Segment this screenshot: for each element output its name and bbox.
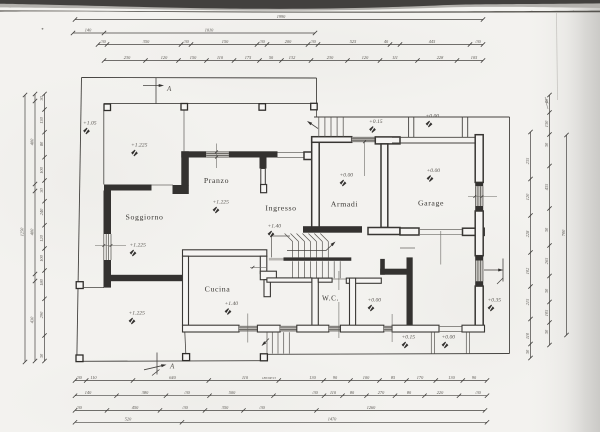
wall nub armadi left <box>304 152 312 160</box>
wall divider armadi-garage <box>381 144 388 228</box>
svg-text:/30: /30 <box>258 39 265 44</box>
level +0.00 armadi <box>339 173 353 187</box>
svg-text:435: 435 <box>544 183 549 190</box>
svg-text:180: 180 <box>39 278 44 285</box>
dimension chain right inner <box>525 130 533 360</box>
svg-text:120: 120 <box>39 234 44 241</box>
svg-text:265: 265 <box>544 257 549 264</box>
svg-text:/30: /30 <box>311 390 318 395</box>
svg-text:120: 120 <box>362 55 369 60</box>
svg-text:130: 130 <box>544 120 549 127</box>
pillar top 2 <box>181 104 188 111</box>
svg-text:105: 105 <box>544 309 549 316</box>
door lines garage <box>419 229 463 231</box>
staircase upper steps <box>272 234 329 258</box>
svg-text:Cucina: Cucina <box>205 285 231 294</box>
svg-text:525: 525 <box>350 39 357 44</box>
wall corridor armadi bottom <box>303 226 362 233</box>
svg-text:132: 132 <box>289 55 296 60</box>
dim line wc window <box>338 271 340 338</box>
dimension chain left total 1250 <box>19 93 27 364</box>
window cucina south 2 <box>280 326 297 331</box>
wall divider bottom flange <box>368 228 400 235</box>
svg-text:228: 228 <box>525 230 530 237</box>
dimension chain bottom row 1 <box>73 375 489 383</box>
svg-text:500: 500 <box>229 390 236 395</box>
wall bath nook bottom <box>380 269 411 275</box>
wall soggiorno left upper <box>104 191 112 235</box>
wall bath partition <box>380 259 385 275</box>
svg-text:130: 130 <box>309 375 316 380</box>
svg-text:400: 400 <box>29 138 34 145</box>
wall garage sill block 3 <box>475 256 483 261</box>
svg-text:+0.15: +0.15 <box>402 335 416 341</box>
svg-text:111: 111 <box>392 55 398 60</box>
level +0.35 right exit <box>487 298 501 312</box>
svg-text:230: 230 <box>124 55 131 60</box>
pillar bottom left <box>76 355 83 362</box>
column pranzo-ingresso thin part <box>261 169 266 185</box>
svg-text:180/9P/15: 180/9P/15 <box>262 376 276 380</box>
svg-text:/30: /30 <box>75 375 82 380</box>
dimension chain total 1990 <box>73 14 485 22</box>
pillar bottom middle 2 <box>260 354 267 361</box>
svg-text:140: 140 <box>85 390 92 395</box>
wall garage sill block 4 <box>475 281 483 286</box>
door line soggiorno-ingresso <box>152 184 174 186</box>
window soggiorno left <box>104 234 111 260</box>
wall garage bottom west <box>400 228 419 235</box>
svg-text:120: 120 <box>161 55 168 60</box>
svg-text:1260: 1260 <box>367 405 376 410</box>
wall pranzo top east <box>229 151 278 157</box>
level +1.225 lower terrace <box>128 311 145 325</box>
dim line soggiorno window <box>95 244 126 247</box>
svg-text:130: 130 <box>39 116 44 123</box>
svg-text:/30: /30 <box>181 405 188 410</box>
svg-text:445: 445 <box>429 39 436 44</box>
svg-text:Garage: Garage <box>418 199 444 208</box>
svg-text:1470: 1470 <box>328 417 337 422</box>
window bath south <box>384 326 392 331</box>
wall south row cucina <box>183 325 240 332</box>
svg-text:+1.40: +1.40 <box>225 301 239 307</box>
wall soggiorno left lower <box>104 260 112 288</box>
svg-text:102: 102 <box>525 267 530 274</box>
wall garage right middle <box>475 211 483 256</box>
svg-text:+0.00: +0.00 <box>340 173 354 179</box>
svg-text:+0.00: +0.00 <box>426 114 440 120</box>
wall wc right <box>350 278 356 326</box>
level +1.05 left terrace <box>83 121 97 135</box>
pillar top 4 <box>311 103 318 110</box>
svg-text:1990: 1990 <box>277 14 286 19</box>
svg-text:/30: /30 <box>474 39 481 44</box>
wall south row c <box>297 325 329 332</box>
svg-text:110: 110 <box>330 390 337 395</box>
svg-text:400: 400 <box>29 228 34 235</box>
svg-text:+1.40: +1.40 <box>268 224 282 230</box>
wall garage front thin <box>392 136 475 138</box>
svg-text:+1.225: +1.225 <box>129 311 146 317</box>
dim line pranzo window <box>215 144 218 169</box>
wall armadi left <box>312 137 320 229</box>
svg-text:/30: /30 <box>474 390 481 395</box>
wall garage sill block 1 <box>475 182 483 186</box>
staircase direction arrow <box>287 242 336 251</box>
svg-text:+1.225: +1.225 <box>131 143 148 149</box>
svg-text:+0.00: +0.00 <box>427 168 441 174</box>
wall garage bottom east <box>463 228 485 235</box>
door hatch garage right <box>475 261 483 282</box>
svg-text:150: 150 <box>190 55 197 60</box>
pillar left middle <box>76 282 83 289</box>
svg-text:290: 290 <box>39 311 44 318</box>
wall pranzo left <box>181 151 189 185</box>
lot boundary outline <box>77 78 510 362</box>
section marker A top <box>143 78 172 104</box>
window cucina south 1 <box>239 326 257 331</box>
svg-text:Ingresso: Ingresso <box>265 204 296 213</box>
wall garage sill block 2 <box>475 206 483 211</box>
svg-text:130: 130 <box>448 375 455 380</box>
wall bath top <box>346 278 381 283</box>
svg-text:175: 175 <box>245 55 252 60</box>
dim line armadi window <box>363 140 366 176</box>
svg-text:/30: /30 <box>182 39 189 44</box>
svg-text:520: 520 <box>125 417 132 422</box>
dim line cucina window <box>247 314 249 343</box>
svg-text:/30: /30 <box>258 405 265 410</box>
threshold lines south door <box>431 332 469 353</box>
wall cucina zig horizontal <box>260 271 276 280</box>
window armadi top <box>352 137 376 142</box>
scan scratch bottom right <box>545 97 548 109</box>
door lines south exit <box>439 325 462 327</box>
dimension chain top row 3 <box>96 39 485 47</box>
dimension chain right total <box>561 133 569 337</box>
svg-text:110: 110 <box>90 375 97 380</box>
svg-text:350: 350 <box>143 39 150 44</box>
dimension chain 140/1010 <box>71 27 317 35</box>
svg-text:105: 105 <box>471 55 478 60</box>
dimension chain bottom row 3 <box>73 405 487 413</box>
svg-text:380: 380 <box>142 390 149 395</box>
dimension chain left outer <box>29 92 37 363</box>
garden steps below cucina <box>262 332 290 353</box>
svg-text:215: 215 <box>525 298 530 305</box>
svg-text:110: 110 <box>242 375 249 380</box>
dim line garage door <box>440 231 442 265</box>
wall garage right upper <box>475 135 483 183</box>
level +0.00 south <box>441 335 455 349</box>
svg-text:/30: /30 <box>75 405 82 410</box>
wall soggiorno bottom <box>104 275 184 281</box>
svg-text:640: 640 <box>169 375 176 380</box>
pillar top 1 <box>104 104 111 111</box>
svg-text:228: 228 <box>437 55 444 60</box>
level +1.40 cucina <box>224 301 238 315</box>
level +0.00 bath <box>367 298 381 312</box>
svg-text:+1.05: +1.05 <box>83 121 97 127</box>
svg-text:Soggiorno: Soggiorno <box>126 213 164 222</box>
svg-text:230: 230 <box>327 55 334 60</box>
level +1.40 ingresso <box>267 224 281 238</box>
level +0.15 porch <box>369 119 383 133</box>
level +0.15 south <box>401 335 415 349</box>
exit arrow right <box>484 259 504 285</box>
svg-text:170: 170 <box>417 375 424 380</box>
wall divider top flange <box>375 137 400 144</box>
wall south row d <box>340 325 383 332</box>
svg-text:350: 350 <box>222 405 229 410</box>
level +0.00 garage <box>426 168 440 182</box>
scan artifact top bar <box>0 0 600 13</box>
svg-text:+0.00: +0.00 <box>442 335 456 341</box>
svg-text:/30: /30 <box>309 39 316 44</box>
svg-text:430: 430 <box>29 316 34 323</box>
dimension chain bottom row 2 <box>73 390 489 398</box>
svg-text:+1.225: +1.225 <box>130 243 147 249</box>
level +1.225 pranzo <box>212 200 229 214</box>
section marker A bottom <box>144 353 175 376</box>
porch stub 1 <box>408 117 410 137</box>
svg-text:220: 220 <box>437 390 444 395</box>
wall pranzo left foot <box>173 185 189 194</box>
level +1.225 top terrace <box>131 143 148 157</box>
window wc south <box>329 326 341 331</box>
scan speck <box>42 28 44 30</box>
svg-text:Pranzo: Pranzo <box>204 176 229 185</box>
svg-text:100: 100 <box>363 375 370 380</box>
wall cucina top <box>183 250 267 256</box>
wall soggiorno top <box>104 185 152 191</box>
dim line bath window <box>391 314 393 342</box>
svg-text:110: 110 <box>525 332 530 339</box>
svg-text:1250: 1250 <box>19 227 24 236</box>
wall wc left <box>312 278 318 325</box>
terrace edge lines <box>84 104 415 354</box>
wall corridor above wc <box>267 278 312 282</box>
dimension chain left inner <box>39 92 47 363</box>
door gap wc <box>332 278 346 280</box>
dimension chain top row 4 <box>102 55 485 63</box>
window pranzo top <box>206 152 229 157</box>
porch stub 2 <box>461 117 463 137</box>
wall south row b <box>257 325 280 332</box>
svg-text:140: 140 <box>85 27 92 32</box>
level +1.225 soggiorno <box>129 243 146 257</box>
wall understair closet <box>264 280 270 297</box>
window garage right <box>475 186 483 206</box>
svg-text:700: 700 <box>561 229 566 236</box>
dim line garage window <box>468 195 497 198</box>
svg-text:110: 110 <box>217 55 224 60</box>
wall bath right tall <box>407 257 413 327</box>
door bar under stairs <box>269 258 284 261</box>
svg-text:200: 200 <box>285 39 292 44</box>
svg-text:A: A <box>169 363 175 371</box>
column pranzo-ingresso foot <box>261 185 267 193</box>
wall cucina left <box>183 256 189 325</box>
scan gray band right edge <box>525 0 600 432</box>
wall south row e <box>392 325 439 332</box>
staircase lower steps <box>293 261 341 278</box>
svg-text:450: 450 <box>132 405 139 410</box>
dimension chain bottom row 4 <box>73 417 489 425</box>
wall south row f <box>462 325 485 332</box>
svg-text:+0.00: +0.00 <box>368 298 382 304</box>
dim line corridor <box>250 266 266 269</box>
svg-text:+1.225: +1.225 <box>213 200 230 206</box>
svg-text:1010: 1010 <box>205 27 214 32</box>
svg-text:A: A <box>166 85 172 93</box>
svg-text:100: 100 <box>39 166 44 173</box>
svg-text:/30: /30 <box>183 390 190 395</box>
entry steps at porch <box>307 117 343 137</box>
level +0.00 porch <box>425 114 439 128</box>
pillar top 3 <box>259 104 266 111</box>
svg-text:+0.15: +0.15 <box>369 119 383 125</box>
wall cucina zig vertical <box>260 256 267 273</box>
pillar bottom middle 1 <box>183 354 190 361</box>
svg-text:+0.35: +0.35 <box>488 298 502 304</box>
staircase central landing bar <box>284 257 352 260</box>
dimension chain right middle <box>544 93 552 347</box>
svg-text:/30: /30 <box>99 39 106 44</box>
wall armadi top <box>312 137 352 143</box>
svg-text:120: 120 <box>525 193 530 200</box>
scan fold line right <box>557 13 558 100</box>
wall pranzo top west <box>181 151 206 157</box>
svg-text:240: 240 <box>39 208 44 215</box>
svg-text:100: 100 <box>39 254 44 261</box>
column pranzo-ingresso leg <box>260 158 267 169</box>
svg-text:Armadi: Armadi <box>331 200 359 209</box>
wall wc top right segment <box>318 278 332 282</box>
wall garage right lower <box>475 286 483 331</box>
svg-text:W.C.: W.C. <box>322 295 339 303</box>
svg-text:150: 150 <box>222 39 229 44</box>
door lines ingresso entry <box>278 152 305 154</box>
svg-text:270: 270 <box>378 390 385 395</box>
svg-text:235: 235 <box>525 157 530 164</box>
